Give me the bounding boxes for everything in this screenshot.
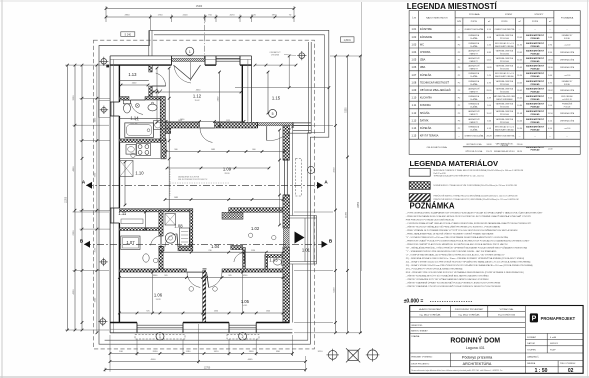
svg-text:LAMINÁTOVÉ: LAMINÁTOVÉ xyxy=(468,87,480,90)
technical room south wall xyxy=(159,247,164,251)
svg-text:2350: 2350 xyxy=(73,230,75,236)
svg-text:PODHĽAD: PODHĽAD xyxy=(531,90,541,93)
svg-text:PRE PRECHODY POTRUBÍ CEZ KONŠT: PRE PRECHODY POTRUBÍ CEZ KONŠTRUKCIU xyxy=(406,219,455,222)
svg-text:1750: 1750 xyxy=(158,15,164,17)
svg-text:SADROKARTÓNOVÝ: SADROKARTÓNOVÝ xyxy=(526,125,545,128)
svg-text:12750: 12750 xyxy=(204,367,211,369)
svg-text:1.08: 1.08 xyxy=(174,224,183,229)
svg-text:PODHĽAD: PODHĽAD xyxy=(531,52,541,55)
svg-text:1610: 1610 xyxy=(214,351,220,353)
terrace dim line north xyxy=(255,64,296,66)
svg-text:13.28: 13.28 xyxy=(487,67,493,69)
svg-text:ŠTUKOVÁ: ŠTUKOVÁ xyxy=(500,121,509,124)
svg-text:1.13: 1.13 xyxy=(128,72,137,77)
left dim connectors xyxy=(65,64,110,66)
svg-text:1.09: 1.09 xyxy=(223,167,232,172)
entrance threshold xyxy=(172,58,206,61)
svg-text:VYPRACOVAL: VYPRACOVAL xyxy=(500,308,515,311)
svg-text:PODHĽAD: PODHĽAD xyxy=(531,149,541,152)
svg-text:4800: 4800 xyxy=(73,166,75,172)
south exterior wall outer face xyxy=(110,332,292,334)
svg-text:1.15: 1.15 xyxy=(272,96,281,101)
right dim connectors xyxy=(330,55,362,57)
svg-text:PaSP: PaSP xyxy=(550,350,556,352)
terrace paving outline outer xyxy=(99,30,329,344)
svg-text:15400: 15400 xyxy=(196,6,203,8)
svg-text:POPIS: POPIS xyxy=(471,21,478,23)
kitchen sink xyxy=(126,145,136,155)
kitchen stove xyxy=(137,143,151,155)
svg-text:23.05: 23.05 xyxy=(517,52,523,54)
dashed roof overhang boundary xyxy=(94,40,315,349)
svg-text:KERAMICKÁ: KERAMICKÁ xyxy=(469,42,480,45)
svg-text:- VŠETKY KOMUNÁLNE KÓTY SÚ VYZ: - VŠETKY KOMUNÁLNE KÓTY SÚ VYZNAČENÉ BEZ… xyxy=(406,275,489,278)
door arc into 1.08 xyxy=(165,234,177,247)
svg-text:ŠTUKOVÁ: ŠTUKOVÁ xyxy=(500,60,509,63)
terrace dim vertical xyxy=(288,56,290,88)
svg-text:13.28: 13.28 xyxy=(155,299,161,301)
svg-text:230: 230 xyxy=(208,250,211,252)
exterior north wall outer face xyxy=(110,55,251,57)
entry porch step xyxy=(304,218,306,262)
wc toilet xyxy=(274,259,282,265)
material swatch 3 (partitions) xyxy=(409,194,430,202)
exterior west wall insulation line xyxy=(113,59,115,332)
svg-text:LAMINÁTOVÉ: LAMINÁTOVÉ xyxy=(468,118,480,121)
svg-text:PODHĽAD: PODHĽAD xyxy=(531,106,541,109)
door circle 1.07 xyxy=(153,258,158,263)
entry porch 1.01 walls xyxy=(290,215,317,217)
terrace 1.15 south edge xyxy=(293,130,311,132)
shower 1.07 xyxy=(121,236,140,250)
svg-text:DLAŽBA: DLAŽBA xyxy=(470,106,478,109)
exterior east wall checker xyxy=(283,126,290,161)
svg-text:4500: 4500 xyxy=(151,359,157,361)
left dimension chain 1 xyxy=(67,65,69,330)
svg-text:PRIEBEŽNÉ: PRIEBEŽNÉ xyxy=(562,103,573,106)
svg-text:CEMENTOVÁ DLAŽBA: CEMENTOVÁ DLAŽBA xyxy=(464,135,484,138)
svg-text:13.30: 13.30 xyxy=(548,67,554,69)
svg-text:KER.OBKLAD DO v.2.0: KER.OBKLAD DO v.2.0 xyxy=(495,72,514,75)
svg-text:34.05: 34.05 xyxy=(517,60,523,62)
internal vertical dim living east xyxy=(279,130,281,225)
svg-text:SADROKARTÓNOVÝ: SADROKARTÓNOVÝ xyxy=(526,42,545,45)
closet line room 1.13 xyxy=(119,80,148,82)
door arc corridor to 1.02 xyxy=(234,253,245,263)
svg-text:SADROKARTÓNOVÝ: SADROKARTÓNOVÝ xyxy=(526,110,545,113)
east window sill dashed xyxy=(296,159,302,197)
svg-text:—: — xyxy=(519,136,521,138)
svg-text:—: — xyxy=(566,136,568,138)
window center dim 1.05 xyxy=(242,272,244,313)
svg-text:OBYTNÁ PLOCHA: OBYTNÁ PLOCHA xyxy=(466,143,482,146)
svg-text:PARKETY: PARKETY xyxy=(470,121,479,124)
svg-text:ŠTUKOVÁ: ŠTUKOVÁ xyxy=(500,90,509,93)
svg-text:15.42: 15.42 xyxy=(487,113,493,115)
room 1.04 door label circle xyxy=(272,235,276,239)
svg-text:28.02: 28.02 xyxy=(517,90,523,92)
svg-text:VÁPENNÁ OMIETKA: VÁPENNÁ OMIETKA xyxy=(496,80,514,83)
svg-text:CELKOM: CELKOM xyxy=(501,145,509,147)
internal vertical dim x268 xyxy=(267,72,269,113)
technical room boiler xyxy=(165,233,175,243)
corridor north wall xyxy=(161,122,200,128)
svg-text:ARCHITEKTÚRA: ARCHITEKTÚRA xyxy=(463,361,492,366)
svg-text:- PRED ZAHÁJENÍM PRÁC JE NUTNÉ: - PRED ZAHÁJENÍM PRÁC JE NUTNÉ VŠETKY RO… xyxy=(406,233,494,236)
svg-text:POZNÁMKA: POZNÁMKA xyxy=(410,201,455,210)
svg-text:PODHĽAD: PODHĽAD xyxy=(531,98,541,101)
exterior west wall inner face xyxy=(118,65,120,102)
svg-text:1.12: 1.12 xyxy=(412,112,417,115)
svg-text:VÁPENNÁ OMIETKA: VÁPENNÁ OMIETKA xyxy=(496,87,514,90)
exterior north wall insulation line xyxy=(110,58,251,60)
svg-text:KER.OBKLAD DO v.2.0: KER.OBKLAD DO v.2.0 xyxy=(495,125,514,128)
south window 2 xyxy=(229,324,256,326)
svg-text:PODHĽAD: PODHĽAD xyxy=(531,128,541,131)
title block grid xyxy=(410,306,583,374)
west wall of 1.02 xyxy=(243,248,246,270)
svg-text:Eva KOHÚTOVÁ: Eva KOHÚTOVÁ xyxy=(498,314,515,317)
svg-text:KERAMICKÁ: KERAMICKÁ xyxy=(469,34,480,37)
svg-text:KER.OBKLAD DO v.2.0: KER.OBKLAD DO v.2.0 xyxy=(495,42,514,45)
svg-text:10.80: 10.80 xyxy=(517,105,523,107)
north wall of 1.02 xyxy=(229,208,283,212)
svg-text:1.02: 1.02 xyxy=(251,226,260,231)
svg-text:DREVENÁ LIŠTA: DREVENÁ LIŠTA xyxy=(560,89,575,92)
svg-text:800: 800 xyxy=(252,149,255,151)
toilet 1.14 xyxy=(123,100,130,104)
svg-text:m²: m² xyxy=(518,20,521,23)
scan edge top xyxy=(0,0,589,2)
svg-text:MUROVACIE TVÁRNICE Z TEHAL HEL: MUROVACIE TVÁRNICE Z TEHAL HELUZ UNI 30 … xyxy=(434,169,524,172)
bathroom 1.14 north wall xyxy=(119,97,129,100)
south window 1 sill xyxy=(135,334,185,339)
door arc room 1.06 xyxy=(187,272,200,287)
svg-text:CHODBA: CHODBA xyxy=(420,51,431,54)
svg-text:ČÍSLO VÝKRESU: ČÍSLO VÝKRESU xyxy=(560,362,576,365)
svg-text:PROMAPROJEKT: PROMAPROJEKT xyxy=(541,316,576,321)
svg-text:ŠTUKOVÁ: ŠTUKOVÁ xyxy=(500,68,509,71)
svg-text:—: — xyxy=(534,136,536,138)
svg-text:ŠATNÍK: ŠATNÍK xyxy=(420,119,429,122)
left dimension chain 2 xyxy=(74,65,76,330)
svg-text:HLAVNÝ PROJEKTANT: HLAVNÝ PROJEKTANT xyxy=(419,308,442,311)
svg-text:KERAMICKÝ: KERAMICKÝ xyxy=(562,80,573,83)
svg-text:DREVENÁ LIŠTA: DREVENÁ LIŠTA xyxy=(560,112,575,115)
svg-text:—: — xyxy=(549,29,551,31)
stamp symbol 3 xyxy=(368,350,378,360)
svg-text:98.38: 98.38 xyxy=(487,144,492,146)
svg-text:POPIS: POPIS xyxy=(532,21,539,23)
svg-text:Ing. Milan VOREČÁK: Ing. Milan VOREČÁK xyxy=(459,314,480,317)
svg-text:1125: 1125 xyxy=(226,120,230,122)
axis circle terrace xyxy=(269,109,277,117)
svg-text:14.30: 14.30 xyxy=(517,128,523,130)
svg-text:STENY: STENY xyxy=(505,14,513,16)
komora/kupelna partition xyxy=(119,228,161,231)
svg-text:- PRED VŔTANÍM JE POTREBNÉ PRE: - PRED VŔTANÍM JE POTREBNÉ PRESNE VYTÝČI… xyxy=(406,229,518,232)
svg-text:KERAMICKÁ: KERAMICKÁ xyxy=(469,95,480,98)
svg-text:1.02: 1.02 xyxy=(412,36,417,39)
svg-text:m²: m² xyxy=(488,20,491,23)
south exterior wall insulation xyxy=(110,328,292,330)
room 1.05 door label circle xyxy=(248,233,252,237)
svg-text:P: P xyxy=(532,316,537,323)
bathroom door arc xyxy=(130,100,143,114)
svg-text:1.04: 1.04 xyxy=(211,244,220,249)
internal dim below corridor top xyxy=(166,121,244,123)
svg-text:PARKETY: PARKETY xyxy=(470,90,479,93)
svg-text:1.05: 1.05 xyxy=(241,299,250,304)
svg-text:905: 905 xyxy=(228,275,231,277)
kitchen east wall xyxy=(161,141,166,159)
svg-text:- VŠETKY ROZVODY INŠTALÁCIÍ VI: - VŠETKY ROZVODY INŠTALÁCIÍ VIĎ PRÍSLUŠN… xyxy=(406,226,500,229)
svg-text:ŠTUKOVÁ: ŠTUKOVÁ xyxy=(500,37,509,40)
svg-text:35.05: 35.05 xyxy=(517,67,523,69)
svg-text:DLAŽBA: DLAŽBA xyxy=(470,128,478,131)
svg-text:1.14: 1.14 xyxy=(412,127,417,130)
top dim connectors xyxy=(105,6,107,22)
svg-text:1.05: 1.05 xyxy=(412,59,417,62)
svg-text:1650: 1650 xyxy=(178,120,182,122)
svg-text:CHODNÍK: CHODNÍK xyxy=(271,53,280,56)
svg-text:PODHĽAD: PODHĽAD xyxy=(531,45,541,48)
title block outer border xyxy=(410,306,583,374)
svg-text:Laguna 431: Laguna 431 xyxy=(466,346,485,350)
svg-text:5250: 5250 xyxy=(345,107,347,113)
svg-text:- VÝPIS OKIEN A DVERÍ, KLAMPIA: - VÝPIS OKIEN A DVERÍ, KLAMPIARSKYCH VÝR… xyxy=(406,212,543,215)
legend table grid xyxy=(409,11,580,155)
svg-text:SADROKART.OBKLAD: SADROKART.OBKLAD xyxy=(495,45,514,48)
svg-text:SADROKARTÓNOVÝ: SADROKARTÓNOVÝ xyxy=(526,103,545,106)
svg-text:LAMINÁTOVÉ: LAMINÁTOVÉ xyxy=(468,57,480,60)
svg-text:KÚPEĽŇA: KÚPEĽŇA xyxy=(420,127,432,130)
svg-text:PARKETY: PARKETY xyxy=(470,68,479,71)
svg-text:SADROKARTÓNOVÝ: SADROKARTÓNOVÝ xyxy=(526,95,545,98)
entry door black triangle xyxy=(295,232,305,244)
north window xyxy=(216,58,240,60)
axis circle bottom 1 xyxy=(156,332,164,340)
svg-text:31.48: 31.48 xyxy=(517,113,523,115)
svg-text:1.06: 1.06 xyxy=(154,292,163,297)
svg-text:KOMORA: KOMORA xyxy=(420,104,431,107)
entry door opening xyxy=(283,228,289,247)
axis circle bottom 2 xyxy=(239,332,247,340)
svg-text:MIERKA: MIERKA xyxy=(527,362,536,365)
svg-text:Č.M: Č.M xyxy=(412,16,416,19)
svg-text:28.26: 28.26 xyxy=(487,90,493,92)
exterior east wall insulation xyxy=(291,126,293,216)
svg-text:PODHĽAD: PODHĽAD xyxy=(531,113,541,116)
west window room 1.07 xyxy=(110,208,112,223)
svg-text:ZARIADENIE KUCHYNE: ZARIADENIE KUCHYNE xyxy=(178,176,200,179)
svg-text:DLAŽBA: DLAŽBA xyxy=(470,83,478,86)
svg-text:1: 1 xyxy=(189,50,191,54)
left dimension chain 3 xyxy=(81,65,83,330)
corridor dim chain y252 xyxy=(161,251,283,253)
svg-text:VÁPENNÁ OMIETKA: VÁPENNÁ OMIETKA xyxy=(496,49,514,52)
svg-text:ŠTUKOVÁ: ŠTUKOVÁ xyxy=(500,52,509,55)
svg-text:1.04: 1.04 xyxy=(412,51,417,54)
internal dim chain x169 xyxy=(168,68,170,210)
svg-text:SADROKARTÓNOVÝ: SADROKARTÓNOVÝ xyxy=(526,65,545,68)
svg-text:1900: 1900 xyxy=(249,351,255,353)
svg-text:PODHĽAD: PODHĽAD xyxy=(531,121,541,124)
svg-text:Rozmnožovanie tejto dokumentác: Rozmnožovanie tejto dokumentácie bez súh… xyxy=(411,369,503,372)
shelf room 1.11 xyxy=(121,219,143,224)
internal vertical dim x145 xyxy=(145,212,147,229)
bathroom 1.14 east wall xyxy=(160,97,165,143)
svg-text:DREVENÁ LIŠTA: DREVENÁ LIŠTA xyxy=(560,119,575,122)
svg-text:DLAŽBA: DLAŽBA xyxy=(470,37,478,40)
bottom dimension chain 2 xyxy=(110,361,306,363)
interior door arc corridor north xyxy=(200,128,213,142)
svg-text:2: 2 xyxy=(242,335,244,339)
terrace paving outline inner xyxy=(105,35,325,340)
svg-text:1.01: 1.01 xyxy=(302,247,311,252)
svg-text:DREVENÁ LIŠTA: DREVENÁ LIŠTA xyxy=(560,66,575,69)
svg-text:SADROKARTÓNOVÝ: SADROKARTÓNOVÝ xyxy=(526,80,545,83)
floor drain 1.14 xyxy=(135,104,139,108)
svg-text:TEPELNÁ IZOLÁCIA POLYSTYRÉN EP: TEPELNÁ IZOLÁCIA POLYSTYRÉN EPS-F hr. 14… xyxy=(434,174,485,177)
internal dim corridor xyxy=(165,199,283,201)
svg-text:VÁPENNÁ OMIETKA: VÁPENNÁ OMIETKA xyxy=(496,110,514,113)
svg-text:CEMENTOVÁ DLAŽBA: CEMENTOVÁ DLAŽBA xyxy=(464,28,484,31)
right dimension chain 2 xyxy=(347,56,349,333)
svg-text:—: — xyxy=(458,136,460,138)
scale box label right xyxy=(341,37,355,42)
svg-text:11380: 11380 xyxy=(345,211,347,218)
door arc room 1.05 xyxy=(209,272,222,287)
svg-text:POZNÁMKA: POZNÁMKA xyxy=(561,16,574,19)
svg-text:SADROKART.OBKLAD: SADROKART.OBKLAD xyxy=(495,75,514,78)
svg-text:PRIEČKOVÉ MURIVO Z TEHÁL HELUZ: PRIEČKOVÉ MURIVO Z TEHÁL HELUZ 14 BROUŠE… xyxy=(434,195,518,198)
material swatch 2 (load bearing) xyxy=(409,182,430,190)
terrace door threshold xyxy=(258,122,294,125)
svg-text:DÁTUM: DÁTUM xyxy=(527,342,535,345)
door arc 1.13 to 1.12 xyxy=(156,73,166,86)
svg-text:v=0.85-1.35: v=0.85-1.35 xyxy=(562,99,572,101)
svg-text:06/2021: 06/2021 xyxy=(550,343,559,345)
svg-text:POLICE: POLICE xyxy=(564,107,571,109)
svg-text:OBÝVACIA IZBA+JEDÁLEŇ: OBÝVACIA IZBA+JEDÁLEŇ xyxy=(420,89,451,92)
break line zigzag symbol xyxy=(154,89,163,93)
svg-text:ZÁKAZKA Č.: ZÁKAZKA Č. xyxy=(527,356,539,359)
svg-text:+v=2.00: +v=2.00 xyxy=(564,75,571,77)
svg-text:14.41: 14.41 xyxy=(242,305,248,307)
window center dim 1.06 xyxy=(152,272,154,313)
svg-text:1970: 1970 xyxy=(272,15,278,17)
svg-text:ÚŽITKOVÁ PLOCHA: ÚŽITKOVÁ PLOCHA xyxy=(465,150,483,153)
svg-text:905: 905 xyxy=(164,275,167,277)
stamp symbol 2 (crossed square) xyxy=(348,350,358,360)
svg-text:FORMÁT: FORMÁT xyxy=(527,336,537,339)
technical room shelves xyxy=(180,228,190,246)
svg-text:LEGENDA MATERIÁLOV: LEGENDA MATERIÁLOV xyxy=(410,159,500,168)
svg-text:STUPEŇ: STUPEŇ xyxy=(527,349,536,352)
svg-text:Z3) - OKNÁ V STENE 120x120 mm: Z3) - OKNÁ V STENE 120x120 mm PRE ZVISLÉ… xyxy=(406,264,533,267)
svg-text:2050: 2050 xyxy=(153,351,159,353)
svg-text:RODINNÝ DOM: RODINNÝ DOM xyxy=(450,335,500,344)
svg-text:SADROKARTÓNOVÝ: SADROKARTÓNOVÝ xyxy=(526,87,545,90)
svg-text:88.20: 88.20 xyxy=(517,151,522,153)
svg-text:LEGENDA MIESTNOSTÍ: LEGENDA MIESTNOSTÍ xyxy=(407,2,498,11)
technical room east wall xyxy=(190,209,193,251)
exterior west wall outer face xyxy=(109,56,111,333)
svg-text:- VŠETKY STAVEBNÉ ÚPRAVY KOORD: - VŠETKY STAVEBNÉ ÚPRAVY KOORDINOVAŤ POD… xyxy=(406,282,501,285)
svg-text:925: 925 xyxy=(146,311,149,313)
svg-text:KERAMICKÁ: KERAMICKÁ xyxy=(469,103,480,106)
svg-text:1485: 1485 xyxy=(211,149,215,151)
svg-text:1.10: 1.10 xyxy=(135,171,144,176)
south window 2 sill xyxy=(227,334,259,339)
svg-text:1.08: 1.08 xyxy=(412,81,417,84)
terrace door leaf xyxy=(266,126,268,140)
internal dim 1.12 xyxy=(153,91,241,93)
svg-text:DZN: DZN xyxy=(457,21,462,23)
svg-text:PREDMET VÝKRESU:: PREDMET VÝKRESU: xyxy=(411,356,433,359)
svg-text:1.03: 1.03 xyxy=(412,43,417,46)
bathroom partition xyxy=(119,118,160,120)
svg-text:4730: 4730 xyxy=(333,167,335,173)
svg-text:1190: 1190 xyxy=(186,351,191,353)
west window reveal lines xyxy=(99,100,111,102)
bathroom 1.14 south wall xyxy=(119,139,166,142)
terrace south wall east part xyxy=(293,122,311,124)
svg-text:PODHĽAD: PODHĽAD xyxy=(531,60,541,63)
svg-text:5: 5 xyxy=(272,112,274,116)
material swatch 1 (masonry) xyxy=(409,168,430,176)
svg-text:28.02: 28.02 xyxy=(548,90,554,92)
survey point west mid xyxy=(101,260,106,265)
svg-text:TECHNICKÁ MIESTNOSŤ: TECHNICKÁ MIESTNOSŤ xyxy=(420,81,449,84)
wall between rooms 1.05 and 1.06 (diag hatch) xyxy=(203,271,206,323)
stamp symbol 1 xyxy=(328,351,337,360)
svg-text:3210: 3210 xyxy=(318,351,324,353)
kitchen fridge xyxy=(120,161,133,177)
scale box label S240 xyxy=(121,32,135,37)
internal dim living xyxy=(166,151,284,153)
svg-text:Ing. Milan VOREČÁK: Ing. Milan VOREČÁK xyxy=(420,314,441,317)
section line B-B xyxy=(84,243,328,245)
svg-text:2200: 2200 xyxy=(183,15,189,17)
svg-text:"X" - USTIACE PRIEDUCHY hr.150: "X" - USTIACE PRIEDUCHY hr.150 mm PRE OD… xyxy=(406,236,509,239)
wc 1.03 west wall xyxy=(265,255,268,270)
wall junction blob SE of bathroom xyxy=(164,123,171,133)
svg-text:MIESTO STAVBY:: MIESTO STAVBY: xyxy=(411,330,428,333)
svg-text:980: 980 xyxy=(174,149,177,151)
svg-text:KERAM.OBKLAD SPOLU: KERAM.OBKLAD SPOLU xyxy=(494,150,515,153)
svg-text:SOKEL: SOKEL xyxy=(564,38,570,40)
svg-text:R=3.22 m²K/W: R=3.22 m²K/W xyxy=(434,172,446,175)
survey point SW xyxy=(100,319,106,325)
svg-text:1.11: 1.11 xyxy=(412,104,417,107)
svg-text:4.93 m2: 4.93 m2 xyxy=(130,123,138,125)
svg-text:ZÁVETRIE: ZÁVETRIE xyxy=(420,28,432,31)
svg-text:CEMENTOVÁ OMIETKA: CEMENTOVÁ OMIETKA xyxy=(494,135,515,138)
svg-text:2070: 2070 xyxy=(230,15,236,17)
wall between 1.12 and 1.15 mid xyxy=(247,59,249,122)
svg-text:1.09: 1.09 xyxy=(412,89,417,92)
svg-text:Z1) - DREVENÁ STENA S OSB DOSK: Z1) - DREVENÁ STENA S OSB DOSKOU hr. 15m… xyxy=(406,257,525,260)
svg-text:4465: 4465 xyxy=(248,359,254,361)
bottom dimension chain 1 xyxy=(110,353,292,355)
svg-text:28.26: 28.26 xyxy=(224,173,230,175)
svg-text:DRUH PROJEKTU:: DRUH PROJEKTU: xyxy=(411,363,430,365)
door circle 1.06 xyxy=(189,287,194,292)
svg-text:1485: 1485 xyxy=(174,197,178,199)
svg-text:3250: 3250 xyxy=(73,95,75,101)
